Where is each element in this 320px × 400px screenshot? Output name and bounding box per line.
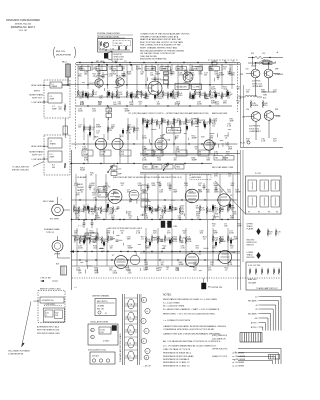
svg-text:C PILOT RΩ: C PILOT RΩ (40, 278, 51, 280)
wire: band 3 bottom bus (72, 219, 240, 220)
playback head PH-1 (circle) (52, 232, 63, 256)
wire: input column join (67, 63, 68, 86)
tube V-1B triode (201, 137, 214, 151)
tube V-4 triode (129, 190, 139, 200)
labels: band2 left top labels (78, 125, 132, 129)
svg-text:2.2K: 2.2K (142, 149, 147, 151)
svg-text:UPPER TRK: UPPER TRK (212, 287, 223, 289)
tube V-2A triode (left) (94, 136, 107, 150)
capacitors C-55 C-56 (band 4 input) (83, 219, 94, 228)
svg-text:12db: 12db (86, 237, 90, 239)
svg-text:10K: 10K (99, 98, 103, 100)
svg-text:68K: 68K (231, 75, 235, 77)
wire: band1 left mid rail (76, 96, 138, 97)
capacitor C-62 (electrolytic, filled) (168, 221, 179, 228)
label: on-connector radio receptacle (8, 350, 31, 356)
wires: stubs below top bus (82, 64, 230, 71)
svg-text:C52: C52 (262, 53, 265, 55)
svg-text:.02: .02 (91, 129, 94, 131)
labels: band1 left value row (80, 102, 134, 106)
microphone element MIC-1 (62, 62, 71, 86)
svg-text:220K: 220K (179, 75, 184, 77)
svg-text:220K: 220K (78, 111, 83, 113)
resistor field (band 4) (74, 235, 235, 245)
svg-text:1M: 1M (161, 264, 164, 266)
svg-text:+12V: +12V (212, 61, 217, 63)
svg-text:220K: 220K (230, 208, 235, 210)
coupling capacitors (band 1) (102, 69, 232, 82)
labels: band3 bottom labels (76, 216, 133, 220)
svg-text:R81 C82: R81 C82 (97, 309, 104, 311)
svg-text:220K: 220K (144, 98, 149, 100)
lower track record head symbol (247, 252, 261, 259)
svg-text:220K: 220K (211, 89, 216, 91)
svg-text:5MF: 5MF (234, 239, 239, 241)
labels: band4 mid labels (78, 246, 133, 250)
electrolytic capacitors (filled symbols) (83, 90, 232, 247)
wire: band 4 signal line (72, 259, 241, 260)
transistor TR-7 output lower-left (242, 112, 261, 122)
svg-text:2.2K: 2.2K (228, 264, 233, 266)
svg-text:C8: C8 (255, 309, 257, 311)
label: (BUILT-IN MICROPHONE) (54, 47, 76, 58)
svg-text:4 CH 1-25 TRK: 4 CH 1-25 TRK (248, 265, 261, 267)
svg-text:68K: 68K (210, 98, 214, 100)
svg-text:2.2K: 2.2K (156, 239, 161, 241)
boxes: switch bias boxes (143, 165, 184, 170)
label: record interlock switch (247, 240, 258, 247)
resistance measurement table (163, 352, 246, 368)
svg-text:220K: 220K (197, 104, 202, 106)
resistor group right of interlock (267, 229, 280, 237)
labels: band3 right value row (146, 206, 235, 210)
svg-text:68K: 68K (273, 92, 277, 94)
svg-text:UPPER ELECTRIC: UPPER ELECTRIC (212, 349, 228, 351)
svg-text:VOL: VOL (113, 69, 117, 71)
svg-text:4-PLAYER 500: 4-PLAYER 500 (42, 299, 54, 302)
svg-text:COIL: COIL (100, 332, 104, 334)
svg-text:47K: 47K (163, 208, 167, 210)
svg-text:220K: 220K (135, 98, 140, 100)
svg-text:10K: 10K (157, 104, 161, 106)
decoupling stack R-28/C-18 (106, 106, 112, 120)
svg-text:50MF: 50MF (166, 211, 172, 213)
svg-text:10K: 10K (113, 104, 117, 106)
svg-text:68K: 68K (146, 248, 150, 250)
svg-text:REC AMP 2: REC AMP 2 (248, 312, 258, 315)
junction + C mark (74, 287, 78, 289)
svg-text:1M: 1M (174, 160, 177, 162)
svg-text:R51: R51 (251, 53, 254, 55)
transistor TR-2 2SB75 (116, 76, 126, 87)
svg-text:RESISTANCE IN 1.1 AND 1.2: RESISTANCE IN 1.1 AND 1.2 (163, 364, 190, 367)
svg-text:2.2K: 2.2K (74, 185, 79, 187)
tube V-2B triode (left) (112, 136, 124, 150)
wire: head region top border (208, 60, 238, 65)
svg-text:EARTH GROUND: EARTH GROUND (212, 112, 228, 115)
svg-text:220K: 220K (78, 248, 83, 250)
svg-text:LOWER AMPL: LOWER AMPL (249, 130, 261, 133)
resistor R-48 (output) (250, 100, 259, 108)
svg-text:2.2K: 2.2K (181, 248, 186, 250)
svg-text:68K: 68K (223, 103, 227, 105)
svg-text:10K: 10K (84, 74, 88, 76)
wire: output to transformer (256, 90, 275, 97)
svg-text:10K: 10K (150, 75, 154, 77)
svg-text:2.2K: 2.2K (227, 126, 232, 128)
tube V-3 pentode (108, 187, 122, 204)
svg-text:30MF: 30MF (144, 154, 148, 156)
svg-text:1M: 1M (198, 185, 201, 187)
terminal box bottom right (269, 355, 280, 360)
wires: band2 left verticals2 (88, 134, 128, 164)
svg-text:10K: 10K (138, 185, 142, 187)
resistor field (band 3 cathode/plate) (73, 205, 234, 215)
svg-text:+B 6BE6: +B 6BE6 (97, 306, 104, 308)
NFB equalizer box (band 1) (175, 84, 202, 90)
bypass capacitors bands 3-4 (91, 207, 224, 242)
labels: right mid labels b (211, 101, 241, 105)
labels: band2 lower labels (142, 136, 229, 140)
svg-text:68K: 68K (152, 69, 156, 71)
labels: inter-band row labels (142, 158, 228, 162)
label: radio phono jack (77, 183, 84, 192)
labels: band1 bottom values (80, 102, 220, 106)
labels: band4 lower labels (76, 268, 229, 272)
switch stack C-16/R-30 (111, 164, 122, 176)
svg-text:J2: J2 (99, 195, 101, 197)
label: rec-p head (above jack) (43, 200, 55, 203)
svg-text:P1: P1 (248, 212, 250, 214)
svg-text:47K: 47K (177, 121, 181, 123)
labels: band1 right value row (144, 96, 242, 100)
svg-text:47K: 47K (167, 233, 171, 235)
notes text block (163, 295, 226, 351)
resistor R-49 (output) (262, 100, 267, 108)
oscillator coil box (88, 349, 115, 365)
svg-text:30MF: 30MF (235, 192, 241, 194)
transistor TR-1 2SB75 (95, 77, 105, 88)
svg-text:1M: 1M (246, 92, 249, 94)
svg-text:30MF: 30MF (125, 111, 131, 113)
svg-text:INPUT: INPUT (34, 91, 41, 93)
resistor group (band 2 left) (83, 125, 139, 134)
svg-text:THE AMPL FOR EACH REEL USED AS: THE AMPL FOR EACH REEL USED AS A (140, 35, 179, 38)
svg-text:TYPE 1-2: TYPE 1-2 (46, 232, 54, 234)
labels: band1 left deep labels (78, 74, 126, 78)
svg-text:RESISTANCE IN 1.2 AND 1.2: RESISTANCE IN 1.2 AND 1.2 (163, 361, 190, 364)
svg-text:EXT SPKR: EXT SPKR (50, 219, 60, 221)
svg-text:2.2K: 2.2K (142, 121, 147, 123)
svg-text:30MF: 30MF (219, 75, 225, 77)
svg-text:560: 560 (179, 95, 182, 97)
svg-text:RNG: RNG (176, 167, 181, 169)
wire stubs texture band2 (144, 119, 231, 149)
svg-text:ca. 350 OHMS: ca. 350 OHMS (232, 356, 246, 358)
labels: gap fillers (80, 131, 131, 177)
wire: +B supply bus (top, double line) (76, 63, 240, 66)
svg-text:47K: 47K (226, 145, 230, 147)
svg-text:Ω 50KC: Ω 50KC (103, 341, 110, 343)
label: talk-back circuit amplifier section (128, 112, 209, 115)
oscillator drum box (88, 321, 118, 346)
label: pilot with arrow (40, 278, 58, 283)
boxes: jack boxes (98, 187, 107, 192)
svg-text:2.2K: 2.2K (136, 233, 141, 235)
leader arrow to connector (22, 302, 32, 348)
labels: band4 value row (144, 262, 233, 266)
svg-text:10K: 10K (224, 226, 228, 228)
svg-text:MIXER TRANS: MIXER TRANS (29, 151, 43, 154)
svg-text:30MF: 30MF (110, 239, 116, 241)
svg-text:LINE VOLTAGE 117 VOLTS.: LINE VOLTAGE 117 VOLTS. (163, 348, 191, 351)
labels: right head labels b (212, 143, 230, 147)
transistor TR-3 2SB75 (148, 79, 162, 95)
switch S-1 (record/play) arrow (163, 164, 169, 171)
labels: head area labels (214, 152, 231, 156)
svg-text:(FRONT CIRCUIT): (FRONT CIRCUIT) (12, 170, 29, 172)
label: record-play switch shown in play position (75, 175, 211, 180)
svg-text:30MF: 30MF (155, 74, 161, 76)
wires: band3 verticals (76, 174, 233, 220)
svg-text:10K: 10K (213, 218, 217, 220)
svg-text:C-1 NFB: C-1 NFB (193, 87, 200, 89)
transistor TR-8 output lower-right (264, 111, 281, 121)
label: record option switch (78, 224, 142, 231)
svg-text:BUILT FOR THE LINE OUTPUT OF T: BUILT FOR THE LINE OUTPUT OF THE TAPE (140, 41, 184, 44)
svg-text:220K: 220K (189, 192, 194, 194)
svg-text:220K: 220K (142, 138, 147, 140)
svg-text:2.2K: 2.2K (109, 76, 114, 78)
svg-text:220: 220 (264, 105, 267, 107)
svg-text:1M: 1M (175, 138, 178, 140)
interconnect plug strip (playback and record heads) (119, 294, 140, 365)
svg-text:300: 300 (52, 167, 55, 169)
wire: band 1 base signal line (62, 84, 235, 85)
svg-text:68K: 68K (194, 264, 198, 266)
svg-text:.05: .05 (166, 269, 168, 271)
svg-text:100MF: 100MF (83, 154, 88, 156)
wire: diagonal lead to head network (215, 181, 246, 214)
wire stubs texture band1 (82, 68, 230, 107)
title block: PANASONIC TAPE RECORDER MODEL RQ-156 DRAWING NO. 6E27-1 (6, 19, 40, 32)
svg-text:(DRAWING NO. 6E27-1: (DRAWING NO. 6E27-1 (11, 26, 36, 29)
input mixer block 1 (high level / low level, dashed) (29, 80, 70, 118)
svg-text:.1: .1 (114, 211, 116, 213)
label: upper track play amp (212, 287, 223, 289)
svg-text:SWITCH: SWITCH (247, 245, 255, 247)
svg-text:RESISTANCE IN STAGE MIC-1: RESISTANCE IN STAGE MIC-1 (163, 352, 192, 355)
input mixer block 2 (dashed) (29, 135, 70, 175)
svg-text:47K: 47K (208, 270, 212, 272)
junction dots band3 bottom bus (85, 219, 222, 220)
wire: left rail (71, 150, 72, 290)
note: repeated input jack (37, 326, 60, 335)
svg-text:HIGH LEVEL: HIGH LEVEL (31, 85, 44, 87)
wire: band 3 signal line (72, 199, 238, 200)
connector circle A (144, 355, 149, 360)
wire: band 2 cathode bus (140, 154, 240, 156)
svg-text:68K: 68K (111, 218, 115, 220)
svg-text:68K: 68K (231, 185, 235, 187)
svg-text:ON THE REC LEVEL CONTROL FOR: ON THE REC LEVEL CONTROL FOR (140, 53, 175, 55)
svg-text:BUILT-IN: BUILT-IN (56, 51, 65, 53)
svg-text:TR-1 2SB75: TR-1 2SB75 (95, 77, 105, 79)
control row: volume/tone potentiometer boxes (80, 67, 220, 71)
svg-text:(INDICATED WITH ARROW): (INDICATED WITH ARROW) (140, 58, 167, 61)
svg-text:RECORD: RECORD (247, 257, 255, 259)
svg-text:30MF: 30MF (96, 127, 102, 129)
transistor TR-6 output upper-right (264, 69, 284, 78)
coupling capacitors (band 3) (89, 181, 218, 192)
svg-text:C50: C50 (246, 69, 249, 71)
tube V-1A triode (155, 138, 171, 154)
svg-text:47K: 47K (118, 104, 122, 106)
svg-text:68K: 68K (207, 160, 211, 162)
svg-text:VOICE COIL: VOICE COIL (252, 83, 262, 85)
svg-text:30MF: 30MF (192, 138, 198, 140)
svg-text:10K: 10K (214, 121, 218, 123)
upper track playback head symbol (247, 224, 261, 236)
svg-text:47K: 47K (187, 239, 191, 241)
svg-text:30MF: 30MF (128, 248, 134, 250)
svg-text:470K: 470K (126, 133, 131, 135)
labels: right band4 labels (212, 224, 242, 228)
svg-text:1M: 1M (109, 130, 112, 132)
svg-text:RESISTANCE INDICATED IN OHMS,: RESISTANCE INDICATED IN OHMS, K = 1,000 … (163, 298, 217, 301)
svg-text:OSCILLATOR DRUM: OSCILLATOR DRUM (90, 321, 108, 324)
svg-text:10K: 10K (159, 192, 163, 194)
svg-text:BIAS 50KC: BIAS 50KC (248, 278, 258, 281)
svg-text:5MF: 5MF (173, 192, 178, 194)
svg-text:MIC-1: MIC-1 (62, 62, 67, 64)
wire: band 4 mid bus (70, 250, 240, 253)
label: to audio amp power circuit (256, 287, 279, 290)
svg-text:10K: 10K (211, 149, 215, 151)
svg-text:A TRK 2: A TRK 2 (251, 326, 258, 329)
trimmer stack (band 1 mid) (164, 72, 169, 84)
svg-text:RIGHT CHANNEL RESPECTIVELY AND: RIGHT CHANNEL RESPECTIVELY AND (140, 47, 178, 50)
wire stubs texture band3 (75, 183, 233, 219)
labels: band3 value labels (75, 212, 237, 216)
wire: top-right feed with resistor R51 (248, 52, 283, 65)
svg-text:2.2K: 2.2K (175, 270, 180, 272)
svg-text:← A7 CKT: ← A7 CKT (143, 365, 151, 368)
wire: band4 right vertical (207, 220, 209, 282)
svg-text:MIXER TRANS: MIXER TRANS (29, 94, 43, 97)
svg-text:1M: 1M (110, 248, 113, 250)
svg-text:2.2K: 2.2K (237, 98, 242, 100)
svg-text:OTHERWISE SPECIFIED. ELECTROLY: OTHERWISE SPECIFIED. ELECTROLYTICS IN MF… (163, 329, 215, 331)
wire: band 1 emitter return bus (76, 105, 232, 106)
labels: band4 mid labels right (146, 246, 235, 250)
svg-text:2.2K: 2.2K (261, 141, 266, 143)
svg-text:A TRK 1: A TRK 1 (251, 321, 258, 324)
svg-text:30MF: 30MF (214, 185, 220, 187)
labels: band4 bottom labels left (78, 271, 132, 275)
svg-text:B: B (91, 330, 92, 332)
svg-text:M = 1,000,000 OHMS: M = 1,000,000 OHMS (163, 306, 185, 308)
boxes: jack boxes 2 (98, 193, 107, 198)
record equalizer box (72, 233, 98, 239)
svg-text:CONN RECEPTA: CONN RECEPTA (8, 353, 24, 356)
svg-text:D.C. VOLTAGES MEASURED AT 20,0: D.C. VOLTAGES MEASURED AT 20,000 OHMS/VO… (163, 345, 217, 348)
svg-text:UPPER AMP: UPPER AMP (252, 85, 263, 88)
svg-text:HEAD PLAY AMPLIFIER CIRCUIT AN: HEAD PLAY AMPLIFIER CIRCUIT AND THE (140, 38, 181, 41)
svg-text:CAPACITORS INDICATED IN MICROM: CAPACITORS INDICATED IN MICROMICROFARADS… (163, 325, 226, 328)
label: rec-play head connection (212, 166, 261, 175)
tube V-9 pentode (185, 253, 201, 267)
svg-text:30MF: 30MF (136, 69, 142, 71)
svg-text:(GMA) OUT COLR: (GMA) OUT COLR (212, 355, 228, 358)
svg-text:SUPP CKT: SUPP CKT (32, 98, 43, 100)
svg-text:OSC AMP: OSC AMP (248, 282, 257, 285)
labels: band4 upper labels (74, 231, 239, 241)
svg-text:SUPP CKT: SUPP CKT (32, 155, 43, 157)
switch S-1a arrow (left) (107, 166, 113, 173)
svg-text:10K: 10K (200, 233, 204, 235)
wire stubs texture band4 (80, 231, 208, 274)
svg-text:68K: 68K (205, 98, 209, 100)
svg-text:RECORD ADJUSTMENT OF THE RECOR: RECORD ADJUSTMENT OF THE RECORDING (140, 49, 185, 52)
labels: head area labels 2 (214, 174, 233, 178)
svg-text:B07: B07 (56, 264, 59, 266)
svg-text:30MF: 30MF (192, 160, 198, 162)
svg-text:A REPEATED INPUT JACK: A REPEATED INPUT JACK (37, 326, 60, 329)
svg-text:MICROPHONE: MICROPHONE (56, 55, 72, 57)
svg-text:THE LINE IN USE.: THE LINE IN USE. (140, 56, 158, 58)
tube V-7 pentode (112, 255, 127, 268)
capacitor C-61 (electrolytic, filled) (161, 221, 170, 228)
svg-text:C .05: C .05 (110, 48, 114, 50)
svg-text:.02: .02 (221, 211, 224, 213)
wire: band 2 left bus (70, 163, 212, 164)
svg-text:(2X2) (TAKE UP): (2X2) (TAKE UP) (212, 338, 226, 341)
rectifier SE-1 (dark block) (202, 278, 213, 289)
transistor TR-4 2SB75 (183, 70, 194, 82)
tube V-6 triode (218, 194, 232, 206)
label 4TR (240, 74, 244, 76)
labels: band3 left labels (76, 193, 109, 197)
svg-text:+B2: +B2 (254, 318, 257, 320)
labels: band2 bottom labels (142, 147, 233, 151)
connector contacts column (141, 294, 151, 368)
wires: band4 verticals (77, 228, 228, 266)
svg-text:TR5: TR5 (177, 152, 180, 154)
svg-text:PLAYBACK HEAD: PLAYBACK HEAD (44, 228, 60, 231)
svg-text:V9: V9 (199, 254, 201, 256)
svg-text:.5: .5 (46, 315, 47, 317)
svg-text:220K: 220K (93, 69, 98, 71)
svg-text:TO AUDIO AMP PWR CKT: TO AUDIO AMP PWR CKT (256, 287, 279, 290)
svg-text:220K: 220K (167, 185, 172, 187)
svg-text:10K: 10K (220, 239, 224, 241)
jack J-3 (shielded input jack) (50, 197, 70, 221)
tube V-10 triode (218, 250, 235, 263)
svg-text:ca. 33 OHMS: ca. 33 OHMS (232, 362, 245, 364)
svg-text:PLAYBK: PLAYBK (247, 228, 255, 231)
svg-text:2.2K: 2.2K (144, 218, 149, 220)
svg-text:CENTER CHANNEL: CENTER CHANNEL (92, 295, 109, 298)
svg-text:.05: .05 (94, 94, 97, 96)
svg-text:(MIC INPUT): (MIC INPUT) (97, 301, 108, 303)
dashed chassis boundary (left) (75, 63, 77, 150)
svg-text:10K: 10K (78, 273, 82, 275)
erase head EH-1 (56, 264, 67, 276)
svg-text:ON-CONNECTOR RADIO: ON-CONNECTOR RADIO (8, 350, 31, 353)
svg-text:4x5 SPKR: 4x5 SPKR (252, 81, 261, 83)
svg-text:10MF: 10MF (82, 149, 88, 151)
